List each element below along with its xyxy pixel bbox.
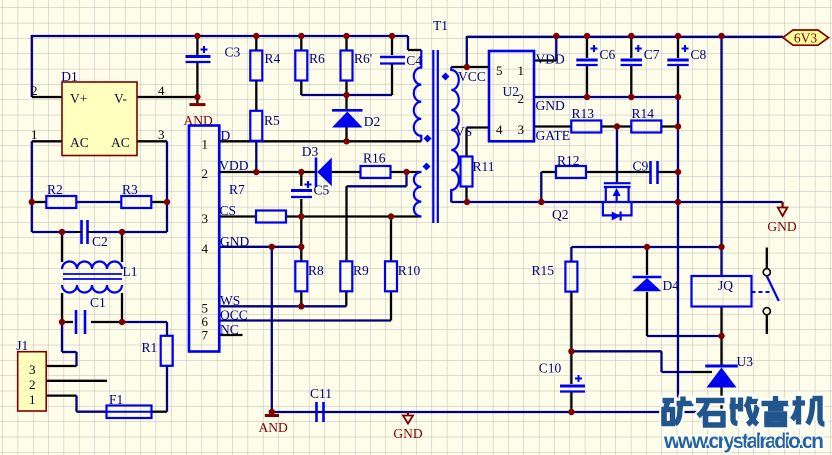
svg-text:1: 1	[29, 392, 36, 407]
wire R9 bottom lead	[345, 291, 347, 306]
wire R5 col down to VDD row	[255, 141, 257, 172]
svg-text:C9: C9	[633, 159, 649, 174]
svg-text:6V3: 6V3	[794, 31, 817, 46]
Q2 body diode	[612, 212, 621, 221]
svg-text:Q2: Q2	[552, 207, 569, 222]
wire secondary bottom lead	[450, 190, 452, 202]
wire R12-gate-C9	[586, 171, 650, 173]
svg-text:3: 3	[202, 211, 209, 226]
wire jog down	[660, 351, 662, 372]
svg-text:VDD: VDD	[536, 52, 565, 67]
wire jog down	[75, 352, 77, 366]
wire C5 top lead	[300, 172, 302, 186]
wire R15 bottom / C10 top	[570, 291, 572, 384]
svg-text:D3: D3	[302, 144, 319, 159]
IC U2	[489, 51, 534, 141]
diode D2	[332, 109, 363, 112]
junction	[164, 199, 170, 205]
junction	[343, 138, 349, 144]
power port AND (top)	[190, 103, 206, 106]
capacitor C6	[576, 59, 597, 62]
resistor R6'	[341, 51, 353, 81]
capacitor C10	[560, 385, 585, 388]
svg-text:D2: D2	[364, 114, 381, 129]
wire 6V3 top rail right	[467, 36, 783, 38]
svg-text:C1: C1	[90, 295, 106, 310]
wire C5 bottom / CS to GND row	[300, 199, 302, 247]
wire R6-C4 row	[301, 94, 392, 96]
wire jog	[62, 351, 77, 353]
wire J1 pin1	[46, 394, 76, 396]
wire WS row	[219, 305, 346, 307]
relay JQ coil	[692, 276, 752, 307]
svg-text:1: 1	[202, 137, 209, 152]
capacitor C1	[75, 310, 78, 334]
junction	[253, 33, 259, 39]
wire right drop pin3 to R3	[166, 141, 168, 202]
wire to F1	[77, 411, 107, 413]
svg-text:C5: C5	[314, 183, 330, 198]
wire C6 bottom lead	[586, 66, 588, 97]
svg-text:R6: R6	[309, 51, 325, 66]
svg-text:AC: AC	[111, 135, 130, 150]
svg-text:3: 3	[518, 122, 525, 137]
fuse F1	[107, 406, 152, 419]
wire U3 anode down	[720, 387, 722, 412]
svg-text:7: 7	[202, 328, 209, 343]
junction	[675, 123, 681, 129]
power port AND (bottom)	[265, 414, 279, 417]
wire C6 top lead	[586, 36, 588, 58]
wire C10 bottom lead	[570, 392, 572, 412]
junction	[388, 213, 394, 219]
svg-text:U3: U3	[737, 354, 754, 369]
wire down to F1 row	[75, 396, 77, 412]
wire C1 row to R1	[122, 321, 167, 323]
wire R8 top lead	[300, 247, 302, 261]
wire L1 top-left lead	[61, 232, 63, 262]
junction	[253, 169, 259, 175]
svg-text:T1: T1	[433, 18, 448, 33]
junction	[628, 94, 634, 100]
wire jog across	[347, 185, 407, 187]
resistor R15	[565, 262, 577, 292]
junction	[464, 64, 470, 70]
wire C8 top lead	[677, 36, 679, 58]
svg-text:www.crystalradio.cn: www.crystalradio.cn	[663, 430, 824, 453]
wire rail corner down to T1	[407, 36, 409, 50]
svg-text:R12: R12	[557, 153, 580, 168]
junction	[298, 169, 304, 175]
svg-text:C3: C3	[225, 45, 241, 60]
svg-text:2: 2	[202, 166, 209, 181]
wire D4 top lead	[646, 247, 648, 275]
wire R6p top lead	[345, 36, 347, 50]
wire U3 ref pin	[692, 371, 713, 373]
junction	[29, 199, 35, 205]
svg-text:1: 1	[31, 127, 38, 142]
wire R6 bottom lead	[300, 81, 302, 95]
junction	[403, 169, 409, 175]
relay contact top	[763, 269, 770, 276]
T1 primary winding	[414, 50, 421, 141]
wire D2 bottom lead	[345, 128, 347, 142]
wire VDD pin1	[534, 59, 556, 61]
svg-text:JQ: JQ	[718, 278, 733, 293]
junction	[718, 333, 724, 339]
wire GATE to R13	[534, 125, 571, 127]
junction	[675, 199, 681, 205]
wire R15-D4-relay row	[571, 246, 721, 248]
svg-text:4: 4	[202, 241, 209, 256]
wire L1 top-right lead	[121, 232, 123, 262]
junction	[298, 33, 304, 39]
ground GND (right)	[778, 208, 788, 217]
junction	[628, 33, 634, 39]
junction	[584, 94, 590, 100]
capacitor C9	[649, 161, 652, 184]
wire C7 top lead	[630, 36, 632, 58]
junction	[343, 33, 349, 39]
diode D4 (points up)	[633, 276, 662, 279]
svg-text:GND: GND	[220, 234, 249, 249]
wire R5 bottom	[255, 139, 257, 142]
wire NC stub	[219, 334, 242, 336]
wire D1 pin1	[32, 140, 62, 142]
junction	[538, 199, 544, 205]
junction	[59, 319, 65, 325]
junction	[553, 33, 559, 39]
svg-text:D4: D4	[663, 278, 680, 293]
wire 6V3 net vertical / relay coil feed	[720, 36, 722, 276]
wire right down to C2 row	[166, 202, 168, 232]
wire GND row	[219, 246, 301, 248]
transformer T1 core	[432, 50, 434, 223]
wire gate vertical	[616, 127, 618, 183]
svg-text:CS: CS	[220, 203, 237, 218]
wire down to R9	[345, 186, 347, 261]
svg-text:V+: V+	[70, 91, 87, 106]
wire D row	[219, 140, 421, 142]
svg-text:R5: R5	[264, 113, 280, 128]
svg-text:R13: R13	[572, 106, 595, 121]
T1 aux winding	[414, 172, 421, 216]
svg-text:F1: F1	[109, 392, 123, 407]
capacitor C2	[80, 220, 83, 244]
svg-text:C2: C2	[92, 234, 108, 249]
wire C4 top lead	[391, 36, 393, 55]
svg-text:R15: R15	[532, 263, 555, 278]
wire CS row down to R10	[390, 217, 392, 262]
T1 secondary winding	[451, 67, 459, 202]
wire R2-R3	[76, 201, 121, 203]
resistor R16	[361, 166, 391, 178]
svg-text:VS: VS	[455, 124, 472, 139]
wire OCC row	[219, 319, 391, 321]
svg-text:VCC: VCC	[458, 69, 486, 84]
wire GND port stub bottom	[407, 412, 409, 415]
L1 bottom winding	[62, 285, 122, 293]
svg-text:2: 2	[29, 377, 36, 392]
wire J1 pin3	[46, 365, 76, 367]
wire source row left	[451, 201, 603, 203]
junction	[194, 33, 200, 39]
wire R4-R5	[255, 81, 257, 111]
wire VDD riser	[555, 36, 557, 61]
junction	[675, 169, 681, 175]
wire AND bottom row	[272, 411, 722, 413]
svg-text:C11: C11	[310, 386, 332, 401]
wire down from C1 row	[61, 322, 63, 352]
junction	[568, 348, 574, 354]
wire GND port stub	[781, 202, 783, 208]
wire HV+ top rail left	[31, 35, 408, 37]
svg-text:3: 3	[29, 362, 36, 377]
wire R8 bottom lead	[300, 291, 302, 306]
svg-text:D: D	[221, 128, 231, 143]
svg-text:R16: R16	[363, 151, 386, 166]
svg-text:C4: C4	[406, 53, 422, 68]
wire contact top stub	[766, 248, 768, 269]
wire J1 pin2 stub	[46, 380, 107, 382]
wire D4 bottom to coil node	[647, 335, 722, 337]
junction	[269, 409, 275, 415]
resistor R13	[571, 121, 601, 133]
svg-text:V-: V-	[114, 91, 128, 106]
svg-text:R7: R7	[229, 182, 245, 197]
svg-text:C7: C7	[644, 47, 660, 62]
svg-text:R9: R9	[353, 263, 369, 278]
junction	[343, 92, 349, 98]
wire F1 to R1 column	[152, 411, 168, 413]
junction	[269, 244, 275, 250]
wire source row right	[632, 201, 783, 203]
MOSFET Q2	[603, 183, 632, 215]
wire C8 bottom lead	[677, 66, 679, 97]
svg-text:R8: R8	[308, 263, 324, 278]
wire C9 right lead	[658, 171, 679, 173]
T1 polarity diamonds	[424, 135, 432, 143]
svg-text:GND: GND	[393, 426, 422, 441]
wire C1 left lead	[62, 321, 73, 323]
svg-text:AC: AC	[70, 135, 89, 150]
svg-text:NC: NC	[220, 322, 239, 337]
wire R15 node right	[571, 350, 661, 352]
wire R12 left lead	[541, 171, 556, 173]
wire C3 top lead	[196, 36, 198, 55]
wire VCC riser	[466, 36, 468, 67]
svg-text:AND: AND	[259, 420, 288, 435]
wire AND net vertical	[271, 247, 273, 412]
svg-text:3: 3	[158, 127, 165, 142]
wire CS row to R7	[219, 215, 256, 217]
wire C7 bottom lead	[630, 66, 632, 97]
wire VS pin4	[467, 126, 490, 128]
junction	[389, 33, 395, 39]
wire L1 bottom-left lead	[61, 293, 63, 322]
junction	[644, 244, 650, 250]
relay blade	[767, 276, 779, 301]
wire left drop to D1 pin2	[31, 35, 33, 97]
svg-text:R14: R14	[632, 106, 655, 121]
junction	[584, 33, 590, 39]
diode D3	[315, 158, 318, 188]
wire down to R11	[465, 128, 467, 158]
capacitor C3	[186, 55, 211, 58]
wire R16 to T1 aux	[391, 171, 422, 173]
junction	[718, 33, 724, 39]
svg-text:R10: R10	[398, 263, 421, 278]
wire R7 to T1 aux bottom	[286, 215, 421, 217]
wire R12 col down	[540, 172, 542, 202]
wire R6p bottom lead	[345, 81, 347, 95]
capacitor C7	[621, 59, 642, 62]
wire D2 top lead	[345, 95, 347, 110]
wire to U3 ref	[662, 371, 692, 373]
junction	[298, 244, 304, 250]
wire R14 right	[661, 125, 678, 127]
capacitor C5	[291, 189, 312, 192]
svg-text:GND: GND	[767, 219, 796, 234]
svg-text:OCC: OCC	[220, 308, 248, 323]
wire R3 right	[151, 201, 167, 203]
junction	[194, 94, 200, 100]
wire C2 row left	[32, 231, 75, 233]
wire to T1 primary top	[408, 49, 421, 51]
connector J1	[18, 352, 47, 411]
resistor R12	[556, 166, 586, 178]
svg-text:R4: R4	[265, 51, 281, 66]
svg-text:5: 5	[496, 63, 503, 78]
wire left down to C2 row	[31, 202, 33, 232]
svg-text:L1: L1	[123, 264, 138, 279]
resistor R14	[631, 121, 661, 133]
svg-text:4: 4	[158, 83, 165, 98]
L1 core	[63, 273, 122, 275]
junction	[568, 409, 574, 415]
junction	[298, 213, 304, 219]
junction	[119, 229, 125, 235]
wire VCC pin5	[451, 66, 489, 68]
wire contact bottom stub	[766, 315, 768, 334]
shunt regulator U3	[705, 365, 738, 368]
resistor R8	[295, 261, 307, 291]
bridge rectifier D1	[62, 82, 137, 156]
resistor R4	[250, 51, 262, 81]
junction	[298, 303, 304, 309]
wire D4 bottom lead	[646, 292, 648, 336]
wire R13-R14	[601, 125, 631, 127]
junction	[614, 123, 620, 129]
wire D1 pin3	[137, 140, 167, 142]
ground GND (bottom)	[403, 416, 413, 424]
svg-text:R2: R2	[47, 182, 63, 197]
svg-text:VDD: VDD	[219, 158, 248, 173]
wire R10 bottom lead	[390, 291, 392, 320]
wire to R2 left	[32, 201, 47, 203]
svg-text:4: 4	[496, 122, 503, 137]
power port 6V3	[783, 30, 829, 45]
svg-text:R3: R3	[122, 182, 138, 197]
svg-text:R11: R11	[473, 159, 495, 174]
wire R11 bottom lead	[465, 186, 467, 202]
resistor R2	[46, 196, 76, 208]
wire GND net vertical	[677, 97, 679, 412]
svg-text:D1: D1	[61, 69, 78, 84]
capacitor C8	[667, 59, 688, 62]
wire up to R1 bottom	[166, 365, 168, 412]
junction	[675, 94, 681, 100]
svg-text:1: 1	[518, 63, 525, 78]
junction	[675, 409, 681, 415]
svg-text:C6: C6	[600, 47, 616, 62]
connector J? (AND header block)	[189, 126, 219, 352]
resistor R9	[340, 261, 352, 291]
wire U2 GND row	[534, 96, 678, 98]
svg-text:C8: C8	[691, 47, 707, 62]
junction	[675, 33, 681, 39]
wire C3 bottom to AND port	[196, 63, 198, 104]
svg-text:2: 2	[31, 83, 38, 98]
wire coil bottom to U3	[720, 307, 722, 366]
wire R6 top lead	[300, 36, 302, 50]
resistor R11	[461, 157, 473, 187]
resistor R3	[121, 196, 151, 208]
svg-text:WS: WS	[220, 293, 240, 308]
wire down to R1 top	[166, 322, 168, 337]
svg-text:2: 2	[518, 91, 525, 106]
watermark Chinese characters (drawn strokes)	[663, 396, 675, 405]
wire R4 top lead	[255, 36, 257, 50]
common-mode choke L1 top winding	[62, 262, 122, 270]
wire left drop pin1 to R2	[31, 141, 33, 202]
svg-text:J1: J1	[16, 338, 28, 353]
wire R15 top lead	[570, 247, 572, 262]
resistor R6	[295, 51, 307, 81]
svg-text:R6': R6'	[354, 51, 372, 66]
junction	[464, 199, 470, 205]
svg-text:R1: R1	[142, 340, 158, 355]
wire jog down	[405, 172, 407, 186]
relay contact bottom	[763, 308, 770, 315]
resistor R10	[385, 261, 397, 291]
junction	[119, 319, 125, 325]
capacitor C11	[315, 402, 318, 422]
svg-text:GATE: GATE	[536, 128, 571, 143]
svg-text:C10: C10	[539, 361, 562, 376]
junction	[718, 244, 724, 250]
svg-text:GND: GND	[536, 98, 565, 113]
junction	[59, 229, 65, 235]
capacitor C4	[380, 56, 405, 59]
wire VDD row left part	[219, 171, 316, 173]
wire D3 to R16	[332, 171, 361, 173]
resistor R1	[161, 336, 173, 366]
wire C1 right lead	[91, 321, 122, 323]
wire C2 row right	[93, 231, 167, 233]
wire D1 pin4 to C3	[137, 96, 197, 98]
resistor R5	[250, 111, 262, 141]
wire C4 bottom lead	[391, 64, 393, 95]
wire L1 bottom-right lead	[121, 293, 123, 322]
wire D1 pin2	[32, 96, 62, 98]
relay dashed link	[752, 291, 772, 293]
